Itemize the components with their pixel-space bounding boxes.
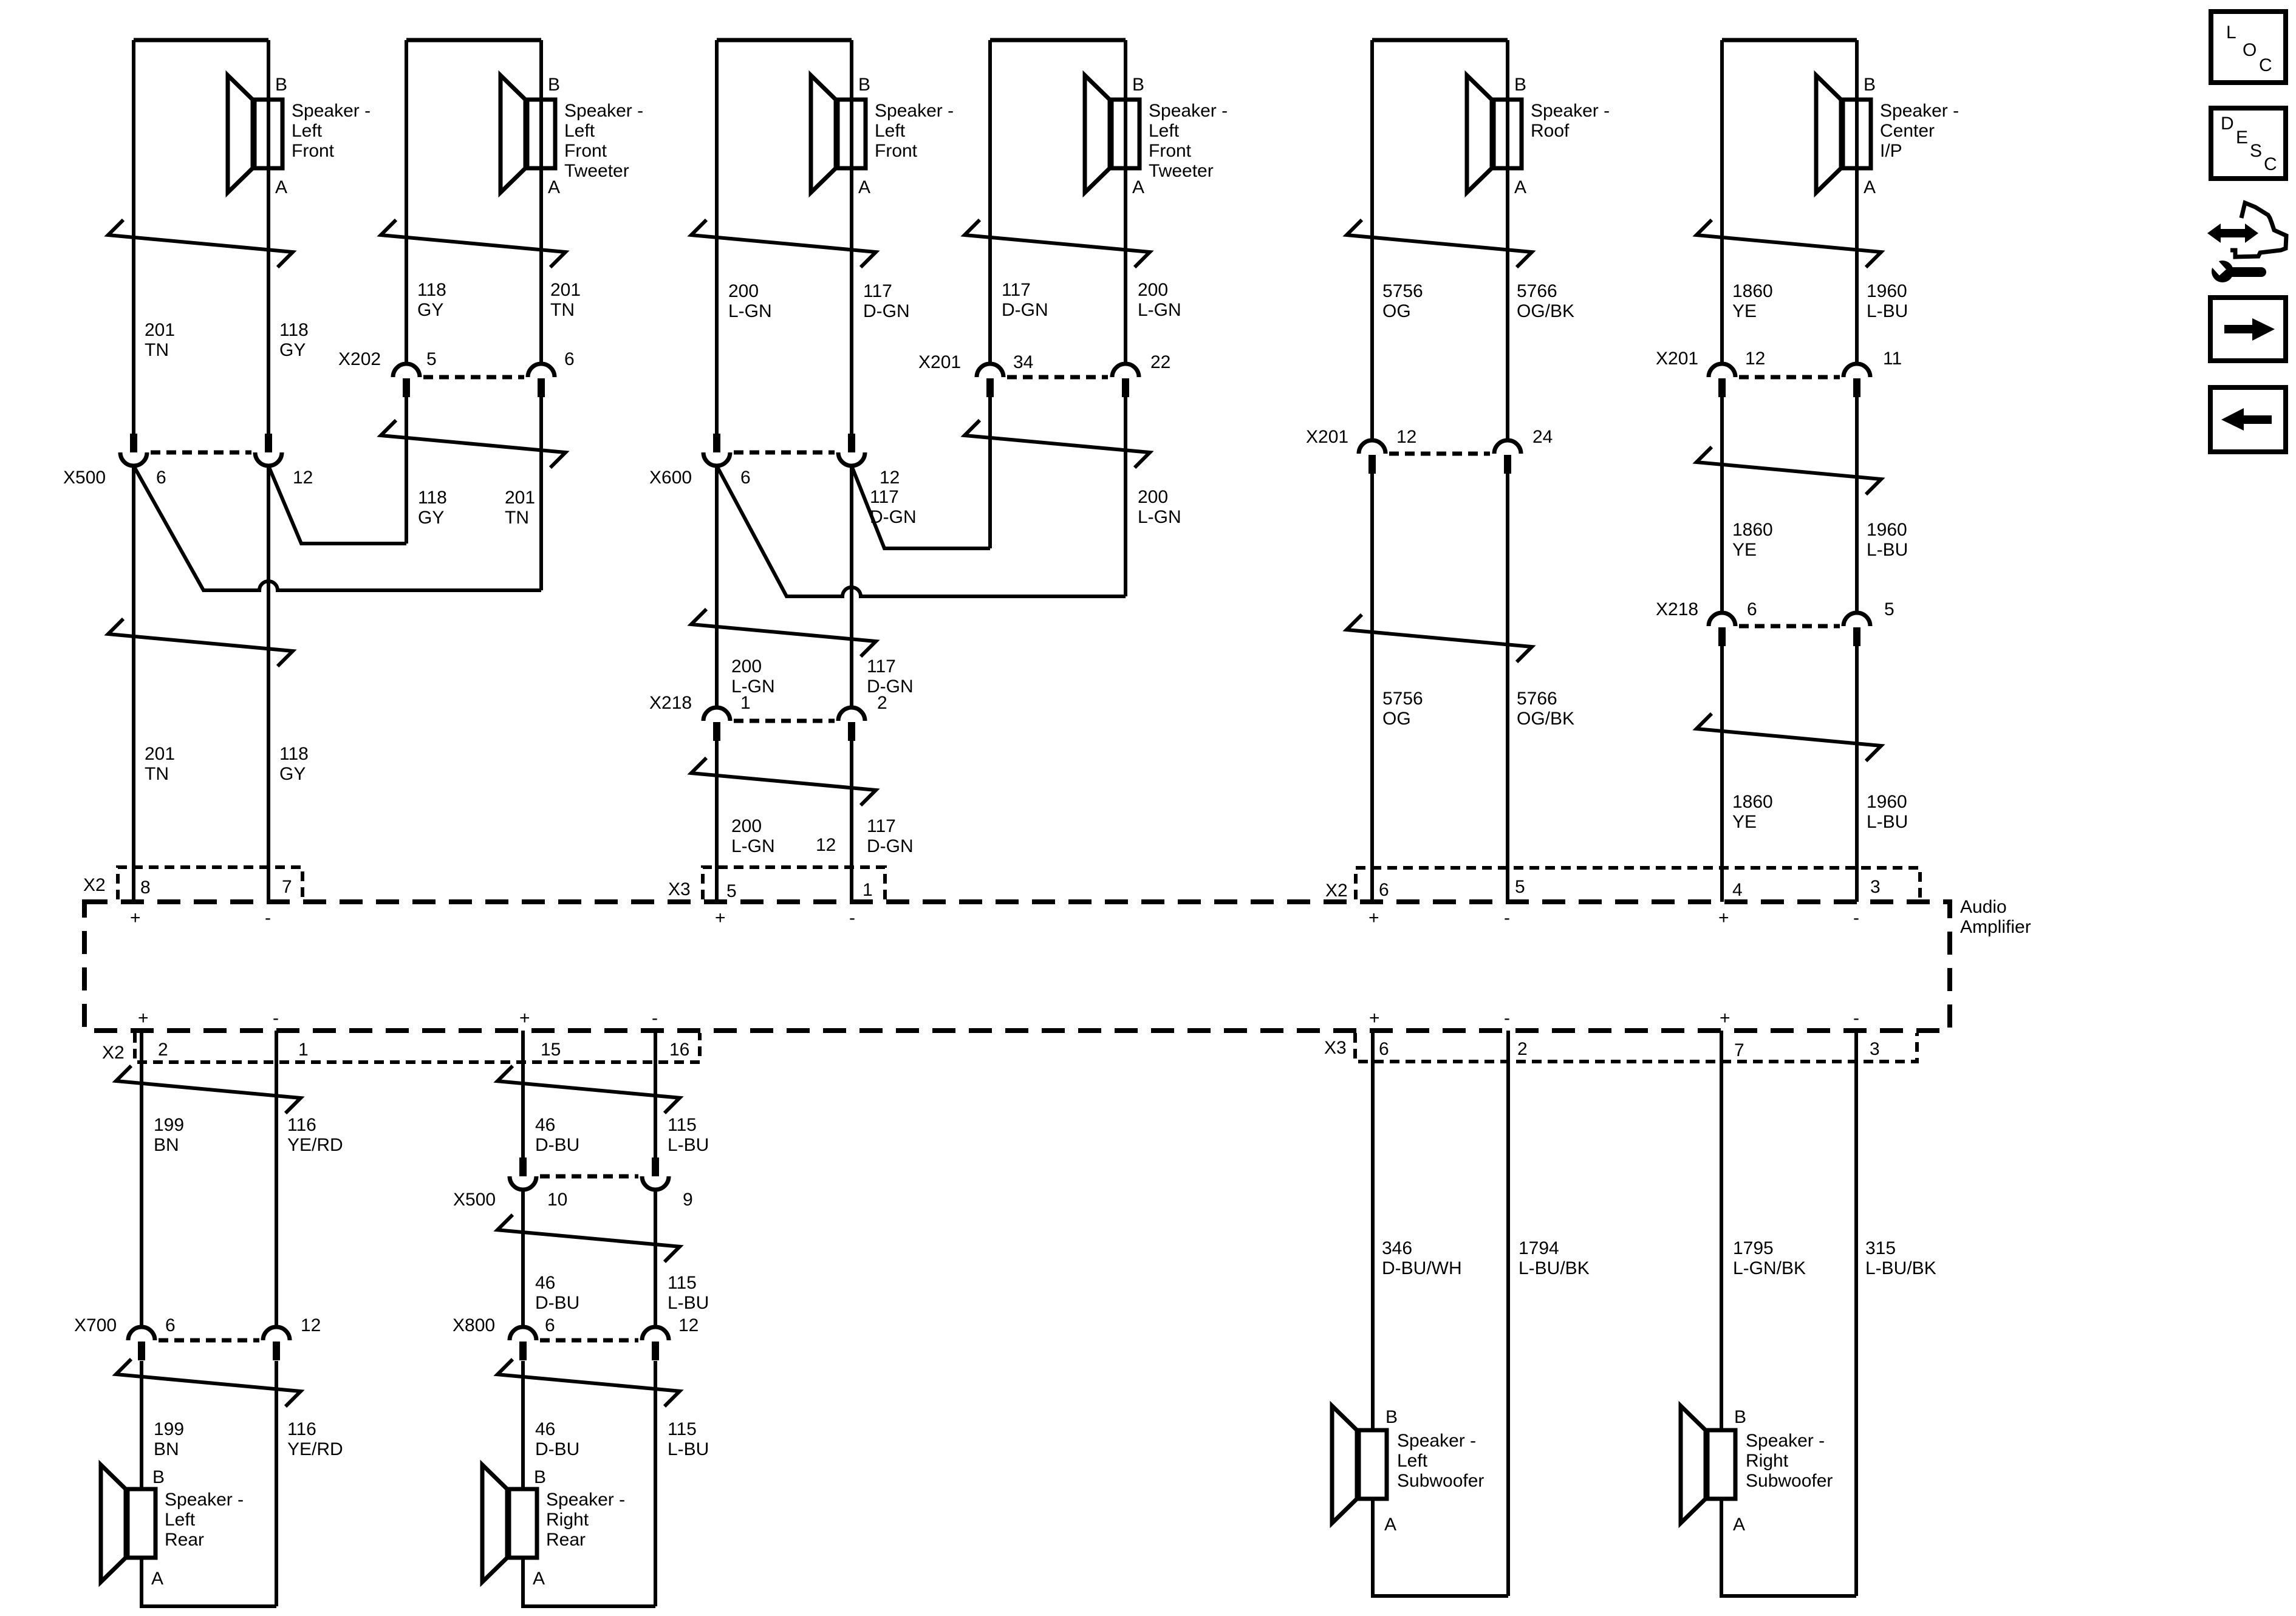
svg-text:115: 115 (668, 1419, 697, 1439)
svg-text:5: 5 (426, 349, 437, 369)
svg-text:5756: 5756 (1382, 281, 1423, 301)
svg-text:118: 118 (279, 320, 309, 340)
Speaker Right Rear loop (523, 1558, 655, 1606)
svg-text:OG: OG (1382, 301, 1411, 321)
svg-text:10: 10 (547, 1190, 567, 1210)
label 199 BN (lower) (154, 1419, 184, 1459)
svg-text:+: + (1718, 908, 1729, 928)
DESC button box (2211, 108, 2286, 179)
svg-text:S: S (2250, 141, 2262, 161)
Speaker Left Subwoofer symbol (1332, 1406, 1387, 1523)
amplifier polarity + bottom at 227 (138, 1008, 149, 1028)
svg-text:L: L (2226, 22, 2236, 43)
wire break below X218-6/5 (1696, 714, 1881, 761)
svg-text:46: 46 (535, 1419, 555, 1439)
connector X600 pin 12 (838, 434, 900, 488)
amplifier pin 5 (X3) (726, 881, 737, 901)
svg-text:Front: Front (564, 141, 607, 161)
label 346 D-BU/WH (1382, 1238, 1462, 1278)
next-page arrow (2224, 318, 2275, 341)
prev-page arrow (2221, 408, 2272, 431)
svg-text:Left: Left (1149, 121, 1180, 141)
connector X201 pin 34 (977, 352, 1033, 397)
svg-text:Front: Front (875, 141, 918, 161)
amplifier polarity + bottom at 2831 (1720, 1008, 1731, 1028)
wire break below X201-12/11 (1696, 447, 1881, 494)
label 46 D-BU (lower) (535, 1419, 579, 1459)
svg-text:YE/RD: YE/RD (287, 1439, 343, 1459)
svg-text:Left: Left (1397, 1451, 1428, 1471)
svg-text:L-BU: L-BU (668, 1135, 709, 1155)
svg-text:B: B (858, 75, 870, 95)
wire break below X201-34/22 (965, 420, 1150, 468)
svg-text:117: 117 (1002, 280, 1031, 300)
svg-text:201: 201 (145, 320, 175, 340)
amplifier pin 6 (X2) (1379, 880, 1389, 900)
svg-text:Speaker -: Speaker - (292, 101, 371, 121)
label 115 L-BU (mid) (668, 1273, 709, 1313)
label 200 L-GN (S3 left) (728, 281, 772, 321)
svg-text:B: B (152, 1467, 165, 1487)
amplifier polarity - bottom at 449 (273, 1008, 279, 1028)
svg-text:D-GN: D-GN (867, 677, 914, 697)
label 118 GY (S2 left) (417, 280, 446, 320)
svg-text:X500: X500 (63, 468, 106, 488)
svg-text:+: + (138, 1008, 149, 1028)
svg-text:B: B (1385, 1407, 1398, 1427)
svg-text:46: 46 (535, 1115, 555, 1135)
amplifier polarity + top at 1177 (715, 908, 726, 928)
wire 117 D-GN below X218-2 (850, 741, 853, 902)
svg-text:116: 116 (287, 1115, 316, 1135)
svg-text:C: C (2264, 154, 2277, 174)
connector X800 label (453, 1315, 495, 1335)
svg-text:7: 7 (282, 877, 292, 897)
svg-text:12: 12 (301, 1315, 321, 1335)
svg-text:Speaker -: Speaker - (165, 1490, 244, 1510)
svg-text:Speaker -: Speaker - (546, 1490, 625, 1510)
connector X600 label (649, 468, 692, 488)
connector X700 pin 12 (263, 1315, 321, 1360)
wire 201 TN tweeter A (539, 40, 543, 364)
Speaker Left Front speaker symbol (811, 75, 866, 193)
Speaker Left Front speaker symbol (228, 75, 282, 193)
svg-text:-: - (652, 1008, 658, 1028)
svg-text:Left: Left (564, 121, 595, 141)
svg-text:B: B (275, 75, 287, 95)
svg-text:Rear: Rear (165, 1530, 204, 1550)
svg-text:6: 6 (1379, 1039, 1389, 1059)
svg-text:B: B (1864, 75, 1876, 95)
svg-text:L-BU: L-BU (668, 1439, 709, 1459)
svg-text:OG/BK: OG/BK (1517, 301, 1574, 321)
amplifier polarity - bottom at 2476 (1504, 1008, 1510, 1028)
svg-text:1960: 1960 (1867, 520, 1907, 540)
amplifier pin 2 (X3) (1517, 1039, 1528, 1059)
svg-text:118: 118 (279, 744, 309, 764)
svg-text:B: B (534, 1467, 546, 1487)
label 199 BN (upper) (154, 1115, 184, 1155)
svg-text:1: 1 (863, 880, 873, 900)
label 1960 L-BU (S6 right) (1867, 281, 1908, 321)
connector X218 pin 5 (1843, 599, 1895, 646)
svg-text:8: 8 (140, 878, 151, 898)
svg-text:X500: X500 (453, 1190, 496, 1210)
svg-text:1795: 1795 (1733, 1238, 1774, 1258)
svg-text:2: 2 (1517, 1039, 1528, 1059)
Speaker Roof name label (1531, 101, 1610, 141)
svg-text:B: B (1734, 1407, 1746, 1427)
svg-text:2: 2 (877, 693, 887, 713)
connector X800 pin 12 (642, 1315, 699, 1360)
connector X218 label (center) (1656, 599, 1698, 619)
amplifier pin 2 (158, 1040, 168, 1060)
svg-text:Subwoofer: Subwoofer (1397, 1471, 1484, 1491)
svg-text:315: 315 (1865, 1238, 1896, 1258)
label 1860 YE (S6 low) (1732, 792, 1773, 832)
component-view car outline (2230, 203, 2286, 257)
svg-text:116: 116 (287, 1419, 316, 1439)
label 118 GY (jog) (418, 488, 447, 528)
wire 199 BN below X700-6 (140, 1361, 143, 1489)
wire break below X2-15/16 (497, 1066, 680, 1113)
wire 117 D-GN below X600-12 (850, 466, 853, 708)
label 117 D-GN (jog) (870, 487, 917, 527)
label 200 L-GN (S3 low) (731, 816, 775, 856)
wire 200 L-GN below X218-1 (715, 741, 719, 902)
label 201 TN (S1 left) (145, 320, 175, 360)
svg-text:+: + (130, 908, 141, 928)
svg-text:6: 6 (545, 1315, 555, 1335)
wire 1860 YE below X201-12b (1720, 397, 1724, 613)
wire jog X500-6 to X202-6 (201 TN) (134, 466, 541, 590)
wire 116 YE/RD below X700-12 (275, 1361, 278, 1606)
wire 201 TN below X202-6 (539, 397, 543, 590)
svg-text:12: 12 (678, 1315, 699, 1335)
svg-text:-: - (1504, 908, 1510, 928)
svg-text:118: 118 (417, 280, 446, 300)
svg-text:TN: TN (145, 340, 169, 360)
label 5766 OG/BK (S5 low) (1517, 689, 1574, 729)
svg-text:A: A (275, 177, 287, 197)
svg-text:Speaker -: Speaker - (875, 101, 954, 121)
Speaker Left Subwoofer pin B label (1385, 1407, 1398, 1427)
label 12 (S3 low) (816, 835, 836, 855)
svg-text:200: 200 (728, 281, 759, 301)
svg-text:22: 22 (1150, 352, 1170, 372)
label 1860 YE (S6 mid) (1732, 520, 1773, 560)
label 115 L-BU (lower) (668, 1419, 709, 1459)
svg-text:L-GN: L-GN (1138, 507, 1181, 527)
Speaker Left Front name label (292, 101, 371, 161)
amplifier polarity + bottom at 855 (519, 1008, 530, 1028)
wire 118 GY left front A (267, 40, 270, 434)
svg-text:X3: X3 (668, 879, 691, 899)
wire 116 YE/RD from X2-1 (275, 1031, 278, 1328)
svg-text:I/P: I/P (1880, 141, 1902, 161)
svg-text:X700: X700 (74, 1315, 117, 1335)
amplifier connector X2 label (bottom) (102, 1043, 125, 1063)
Speaker Left Front pin B label (275, 75, 287, 95)
connector X500 dashed link (10-9) (540, 1174, 638, 1179)
Speaker Left Front Tweeter name label (1149, 101, 1228, 181)
Speaker Center I/P circuit box top (1722, 38, 1857, 43)
connector X202 label (338, 349, 381, 369)
next-page arrow box (2210, 298, 2286, 361)
svg-text:Left: Left (875, 121, 906, 141)
label 117 D-GN (S4 left) (1002, 280, 1048, 320)
svg-text:6: 6 (564, 349, 575, 369)
svg-text:117: 117 (870, 487, 899, 507)
svg-text:X218: X218 (649, 693, 692, 713)
svg-text:Speaker -: Speaker - (1397, 1431, 1476, 1451)
svg-text:Tweeter: Tweeter (1149, 161, 1214, 181)
Speaker Left Front pin A label (858, 177, 870, 197)
svg-text:117: 117 (867, 816, 896, 836)
Speaker Left Subwoofer loop (1373, 1499, 1508, 1596)
amplifier pin 8 (140, 878, 151, 898)
wire 315 L-BU/BK from X3-3 (1854, 1031, 1858, 1596)
connector X201 dashed link (12-24) (1389, 452, 1490, 456)
svg-text:TN: TN (550, 300, 575, 320)
Speaker Left Subwoofer pin A label (1384, 1515, 1396, 1535)
wire break below Speaker Roof (1347, 220, 1532, 267)
wire jog X600-12 to X201-34 (117 D-GN) (852, 466, 990, 548)
svg-text:L-BU: L-BU (1867, 540, 1908, 560)
wire break below Speaker Center I/P (1696, 220, 1881, 267)
svg-text:1860: 1860 (1732, 281, 1773, 301)
svg-text:D-GN: D-GN (863, 301, 910, 321)
wire break below Speaker Left Front Tweeter (381, 220, 565, 267)
svg-text:TN: TN (145, 764, 169, 784)
svg-text:1794: 1794 (1519, 1238, 1559, 1258)
label 5756 OG (S5 low) (1382, 689, 1423, 729)
svg-text:X600: X600 (649, 468, 692, 488)
label 116 YE/RD (lower) (287, 1419, 343, 1459)
wire 1960 L-BU center A (1855, 40, 1859, 364)
label 201 TN (jog) (505, 488, 535, 528)
svg-text:BN: BN (154, 1439, 179, 1459)
amplifier polarity - bottom at 3051 (1853, 1008, 1859, 1028)
svg-text:X800: X800 (453, 1315, 495, 1335)
svg-text:YE: YE (1732, 812, 1757, 832)
wire 118 GY tweeter B (405, 40, 408, 364)
Speaker Left Front Tweeter speaker symbol (501, 75, 555, 193)
label 116 YE/RD (upper) (287, 1115, 343, 1155)
svg-text:D-GN: D-GN (1002, 300, 1048, 320)
svg-text:6: 6 (165, 1315, 176, 1335)
connector X500 label (10-9) (453, 1190, 496, 1210)
svg-text:Speaker -: Speaker - (1880, 101, 1959, 121)
connector X500 dashed link (6-12) (151, 451, 251, 455)
connector X201 dashed link (12-11) (1739, 375, 1840, 380)
svg-text:A: A (858, 177, 870, 197)
svg-text:3: 3 (1870, 1039, 1880, 1059)
wire 1860 YE below X218-6 (1720, 646, 1724, 902)
connector X202 pin 5 (393, 349, 437, 397)
Speaker Left Front Tweeter pin A label (548, 177, 560, 197)
svg-text:200: 200 (731, 816, 762, 836)
svg-text:1860: 1860 (1732, 792, 1773, 812)
svg-text:46: 46 (535, 1273, 555, 1293)
svg-text:6: 6 (1747, 599, 1757, 619)
svg-text:B: B (1132, 75, 1144, 95)
svg-text:117: 117 (867, 656, 896, 677)
svg-text:5766: 5766 (1517, 281, 1557, 301)
amplifier pin 7 (X3) (1734, 1040, 1744, 1060)
wire 115 L-BU below X500-9 (654, 1190, 657, 1328)
svg-text:L-BU: L-BU (1867, 301, 1908, 321)
connector X201 pin 11 (1843, 349, 1902, 397)
Speaker Left Front pin A label (275, 177, 287, 197)
label 1960 L-BU (S6 low) (1867, 792, 1908, 832)
label 46 D-BU (mid) (535, 1273, 579, 1313)
wire 46 D-BU from X2-15 (521, 1031, 525, 1157)
component-view wrench (2207, 256, 2266, 282)
Speaker Right Rear symbol (482, 1465, 537, 1582)
svg-text:5766: 5766 (1517, 689, 1557, 709)
connector X218 pin 1 (703, 693, 751, 741)
svg-text:Right: Right (1746, 1451, 1789, 1471)
wire 346 D-BU/WH from X3-6 (1371, 1031, 1375, 1430)
wire 200 L-GN below X201-22 (1124, 397, 1127, 596)
amplifier connector box X2 6-5-4-3 (1356, 868, 1920, 899)
Speaker Roof speaker symbol (1467, 75, 1522, 193)
label 201 TN (S2 right) (550, 280, 581, 320)
Speaker Roof pin A label (1514, 177, 1526, 197)
amplifier pin 3 (X2) (1870, 877, 1881, 897)
LOC button letters (2226, 22, 2272, 75)
wire 118 GY below X202-5 (405, 397, 408, 544)
svg-text:15: 15 (541, 1040, 561, 1060)
svg-text:L-GN: L-GN (1138, 300, 1181, 320)
connector X201 label (center) (1656, 349, 1698, 369)
label 1860 YE (S6 left) (1732, 281, 1773, 321)
svg-text:115: 115 (668, 1273, 697, 1293)
svg-text:7: 7 (1734, 1040, 1744, 1060)
amplifier polarity - top at 2476 (1504, 908, 1510, 928)
Speaker Left Front Tweeter pin B label (548, 75, 560, 95)
svg-text:A: A (1733, 1515, 1745, 1535)
amplifier pin 1 (X3) (863, 880, 873, 900)
wire 1960 L-BU below X218-5 (1855, 646, 1859, 902)
svg-text:L-BU/BK: L-BU/BK (1865, 1258, 1936, 1278)
svg-text:Tweeter: Tweeter (564, 161, 629, 181)
amplifier connector box X3 5-1 (703, 867, 885, 899)
svg-text:E: E (2236, 128, 2248, 148)
svg-text:A: A (533, 1569, 545, 1589)
amplifier pin 3 (X3) (1870, 1039, 1880, 1059)
svg-text:6: 6 (156, 468, 166, 488)
wire break below X600 (691, 609, 876, 656)
svg-text:X202: X202 (338, 349, 381, 369)
Speaker Left Rear name label (165, 1490, 244, 1550)
wire 117 D-GN tweeter2 B (988, 40, 992, 364)
svg-text:D: D (2221, 114, 2234, 134)
connector X700 dashed link (6-12) (159, 1338, 259, 1343)
svg-text:12: 12 (293, 468, 313, 488)
wire 200 L-GN left front2 B (715, 40, 719, 434)
svg-text:12: 12 (880, 468, 900, 488)
amplifier polarity + top at 2829 (1718, 908, 1729, 928)
svg-text:Speaker -: Speaker - (1149, 101, 1228, 121)
svg-text:24: 24 (1532, 427, 1553, 447)
wire break below X218-1/2 (691, 758, 876, 805)
Speaker Left Subwoofer name label (1397, 1431, 1484, 1491)
connector X218 dashed link (1-2) (734, 719, 835, 723)
amplifier polarity - bottom at 1073 (652, 1008, 658, 1028)
wire break below X201-roof (1347, 615, 1532, 662)
component-view double arrow (2207, 223, 2258, 243)
connector X201 dashed link (34-22) (1007, 375, 1108, 380)
connector X600 dashed link (6-12) (734, 451, 835, 455)
svg-text:TN: TN (505, 508, 529, 528)
wire 5756 OG below X201-12 (1370, 474, 1374, 902)
wire 115 L-BU below X800-12 (654, 1361, 657, 1606)
wire break below X500 (S1) (108, 619, 293, 666)
label 1795 L-GN/BK (1733, 1238, 1806, 1278)
connector X500 pin 9 (642, 1157, 693, 1210)
svg-text:9: 9 (683, 1190, 693, 1210)
label 117 D-GN (S3 mid) (867, 656, 914, 697)
svg-text:GY: GY (279, 340, 306, 360)
svg-text:1: 1 (298, 1040, 309, 1060)
svg-text:X218: X218 (1656, 599, 1698, 619)
wire break below Speaker Left Front (691, 220, 876, 267)
wire break below X700 (116, 1359, 301, 1406)
svg-text:+: + (1720, 1008, 1731, 1028)
Speaker Left Front circuit box top (134, 38, 268, 43)
wire 5766 OG/BK roof A (1506, 40, 1509, 440)
svg-text:Right: Right (546, 1510, 589, 1530)
svg-text:YE/RD: YE/RD (287, 1135, 343, 1155)
svg-text:200: 200 (1138, 280, 1168, 300)
label 200 L-GN (S3 mid) (731, 656, 775, 697)
connector X500 pin 12 (255, 434, 313, 488)
audio amplifier name label (1960, 897, 2031, 937)
Speaker Left Rear loop (142, 1558, 276, 1606)
wire break below X2-2/1 (116, 1066, 301, 1113)
amplifier connector box X2 2-1-15-16 (135, 1033, 700, 1062)
wire break below X500-10/9 (497, 1215, 680, 1262)
label 117 D-GN (S3 low) (867, 816, 914, 856)
svg-text:Subwoofer: Subwoofer (1746, 1471, 1833, 1491)
svg-text:115: 115 (668, 1115, 697, 1135)
wire jog X600-6 to X201-22 (200 L-GN) (717, 466, 1126, 596)
amplifier polarity + top at 2253 (1368, 908, 1379, 928)
connector X600 pin 6 (703, 434, 751, 488)
connector X800 dashed link (6-12) (540, 1338, 638, 1343)
label 117 D-GN (S3 right) (863, 281, 910, 321)
svg-text:D-BU/WH: D-BU/WH (1382, 1258, 1462, 1278)
svg-text:C: C (2259, 55, 2272, 75)
label 118 GY (S1 right) (279, 320, 309, 360)
Speaker Left Front Tweeter speaker symbol (1085, 75, 1139, 193)
svg-text:Amplifier: Amplifier (1960, 917, 2031, 937)
amplifier connector box X2 8-7 (118, 867, 302, 899)
amplifier polarity - top at 1398 (849, 908, 855, 928)
label 118 GY (S1 low) (279, 744, 309, 784)
svg-text:6: 6 (1379, 880, 1389, 900)
wire 117 D-GN left front2 A (850, 40, 853, 434)
svg-text:O: O (2243, 40, 2257, 60)
wire break below X800 (497, 1359, 680, 1406)
svg-text:GY: GY (417, 300, 443, 320)
svg-text:D-GN: D-GN (870, 507, 917, 527)
svg-text:X2: X2 (102, 1043, 125, 1063)
svg-text:L-BU: L-BU (1867, 812, 1908, 832)
amplifier connector X2 label (top left) (83, 875, 106, 895)
